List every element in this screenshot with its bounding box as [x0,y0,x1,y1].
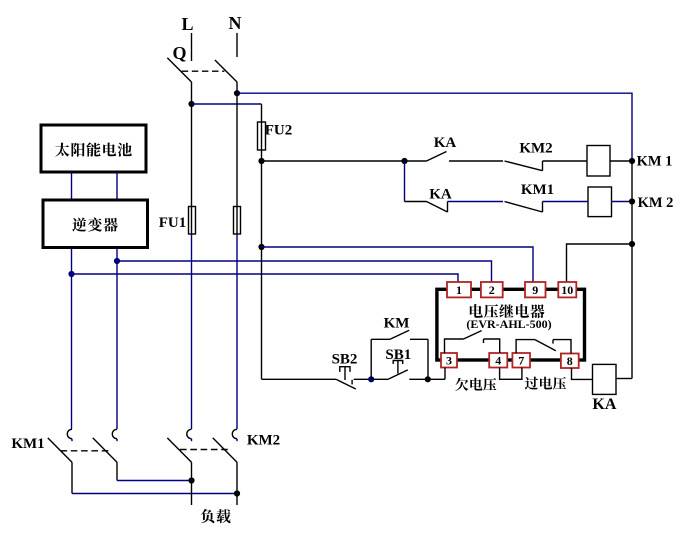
wire FU2 branch down to control rail [261,247,263,379]
wire inverter 2 down to KM1 contact [116,261,118,429]
contact KM (self-hold) label [384,316,410,332]
coil KM1 [587,146,610,177]
node junction FU2/row1 [258,158,264,164]
wire solar-inverter link 2 [116,172,118,200]
relay internal undervoltage contact (3-4) [445,331,500,353]
wire FU2 branch drop [261,104,263,122]
node junction SB1/pin3 [425,376,431,382]
wire KA coil to rail [616,378,632,380]
svg-text:8: 8 [567,354,573,368]
wire row2 to coil [543,201,589,203]
wire pin4-pin7 jumper [500,368,522,380]
node junction coil-KM1/rail [629,158,635,164]
pushbutton SB2 label [332,352,358,368]
wire SB2 to junction [354,378,372,380]
contactor KM2 label [247,433,280,449]
wire pin 9 sense line [262,247,534,283]
contact KM2 (NC interlock) label [519,141,552,157]
svg-text:KM1: KM1 [521,182,554,198]
wire KM1a down [71,462,73,493]
svg-text:FU2: FU2 [265,123,293,139]
node junction N/top-rail [234,90,240,96]
svg-text:(EVR-AHL-500): (EVR-AHL-500) [466,317,551,331]
contactor KM1 main contact b [93,429,117,462]
svg-text:KM: KM [384,316,410,332]
node junction SB2/KM branch [368,376,374,382]
terminal pin 9 [525,282,546,297]
fuse FU1a [189,104,196,234]
wire top rail to right edge [237,93,632,161]
svg-text:KM 2: KM 2 [638,195,674,211]
wire control row 1 feed [262,160,427,162]
svg-text:Q: Q [172,43,186,63]
svg-text:KM1: KM1 [11,436,44,452]
contactor KM2 main contact b [213,429,237,462]
wire row1 mid [449,160,503,162]
wire KM2a down [191,462,193,480]
svg-text:SB2: SB2 [332,352,358,368]
label load (负载) [201,509,231,523]
svg-text:KA: KA [592,396,616,413]
wire KM2b down [236,462,238,493]
svg-text:N: N [229,13,242,33]
node junction load lower [234,490,240,496]
wire pin 8 to KA coil [572,368,593,379]
wire load stub 1 [191,481,193,506]
wire coil KM2 to rail [612,201,633,203]
fuse FU2 [258,122,266,150]
node junction inverter1/pin1 line [68,271,74,277]
node junction FU2-branch/pin9 line [258,244,264,250]
voltage relay subtitle [466,317,551,331]
wire load stub 2 [236,494,238,506]
switch Q pole 2 blade [215,60,237,82]
contact KA (NC) row2 label [429,187,452,203]
svg-text:4: 4 [495,353,501,367]
contact KA (NO) row1 label [434,135,457,151]
coil KA label [592,396,616,413]
wire row1 to row2 drop [404,161,406,202]
contact KA (NC) row2 blade [427,202,448,213]
contactor KM1 label [11,436,44,452]
wire row2 start [405,201,427,203]
terminal pin 3 [441,353,457,368]
svg-text:L: L [181,14,193,34]
svg-text:1: 1 [456,283,462,297]
wire load bus lower [72,493,237,495]
contactor KM2 linkage (dashed) [180,449,230,451]
node junction load upper [188,477,194,483]
fuse FU1b [234,93,241,234]
wire pin 10 line [567,244,633,283]
svg-text:7: 7 [518,353,524,367]
voltage relay title (电压继电器) [470,304,545,318]
terminal pin 8 [561,354,579,369]
wire pin 2 sense line [117,261,492,283]
svg-text:FU1: FU1 [159,215,187,231]
fuse FU1 label [159,215,187,231]
wire control rail left [262,378,337,380]
switch Q linkage (dashed) [182,70,225,72]
contact KM branch up [370,339,372,379]
wire N drop [236,33,238,57]
switch Q pole 1 blade [167,58,191,82]
block solar battery (太阳能电池) [41,125,146,172]
contact KM branch down [427,339,429,379]
wire coil KM1 to rail [610,160,632,162]
svg-text:2: 2 [489,283,495,297]
wire right rail [631,161,633,379]
contactor KM2 main contact a [167,429,191,462]
wire KM1b down [116,462,118,480]
wire load bus upper [117,480,192,482]
coil KM2 [588,187,612,217]
wire junction to pin 3 [428,368,445,380]
coil KA [593,364,617,394]
node N (mains neutral) [229,13,242,33]
wire FU2 to control row [261,150,263,161]
contactor KM1 main contact a [48,429,72,462]
wire inverter out 2 [116,248,118,262]
contact KM (NO) [371,330,428,339]
contactor KM1 linkage (dashed) [61,450,111,452]
label undervoltage (欠电压) [455,378,496,391]
svg-text:KA: KA [429,187,452,203]
svg-text:KM2: KM2 [247,433,280,449]
pushbutton SB1 label [385,347,411,363]
coil KM2 label [638,195,674,211]
wire N below Q [236,82,238,93]
wire row2 mid [448,201,504,203]
wire solar-inverter link 1 [71,172,73,200]
fuse FU2 label [265,123,293,139]
voltage relay U1 (EVR-AHL-500) body [437,289,585,360]
terminal pin 4 [489,353,507,368]
wire SB1 to junction [409,378,428,380]
node junction L/FU2 branch [188,101,194,107]
contact KM2 (NC interlock) blade [505,161,543,171]
svg-text:3: 3 [446,353,452,367]
relay internal overvoltage contact (7-8) [516,340,571,354]
svg-text:9: 9 [532,283,538,297]
coil KM1 label [637,154,673,170]
node junction inverter2/pin2 line [114,258,120,264]
contact KM1 (NC interlock) blade [505,202,543,213]
node L (mains line) [181,14,193,34]
block inverter (逆变器) [43,200,148,248]
contact KA (NO) row1 blade [427,152,447,162]
terminal pin 2 [481,282,503,297]
contact KM1 (NC interlock) label [521,182,554,198]
wire N phase down [236,234,238,429]
node junction row1/row2 [401,158,407,164]
wire L phase down [191,234,193,429]
svg-text:KM2: KM2 [519,141,552,157]
wire row1 to coil [543,160,588,162]
pushbutton SB2 (NC) [336,367,356,389]
svg-text:10: 10 [561,283,573,297]
switch Q label [172,43,186,63]
wire L to FU2 branch [192,103,262,105]
wire inverter out 1 [71,248,73,275]
label overvoltage (过电压) [525,377,566,390]
pushbutton SB1 (NO) [371,361,408,380]
wire inverter 1 down to KM1 contact [71,274,73,429]
wire pin 1 sense line [72,274,459,283]
terminal pin 10 [558,282,576,297]
wire L drop [191,33,193,61]
terminal pin 7 [512,353,530,368]
wire L below Q [191,82,193,104]
svg-text:KA: KA [434,135,457,151]
node junction coil-KM2/rail [629,198,635,204]
wire FU2 branch down to row3 [261,161,263,247]
node junction rail/pin10 line [629,241,635,247]
svg-text:KM 1: KM 1 [637,154,673,170]
terminal pin 1 [447,282,471,297]
